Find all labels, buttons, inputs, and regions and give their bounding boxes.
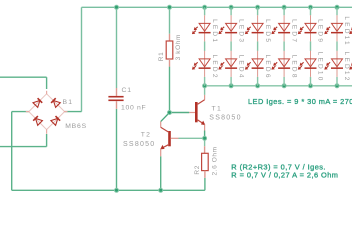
wire AC input bottom horizontal (0, 146, 47, 148)
svg-text:B1: B1 (63, 99, 74, 106)
wire lower LED rail (205, 85, 352, 87)
LED3 (218, 15, 244, 44)
LED10 (298, 51, 324, 83)
label 2.6 Ohm value (211, 146, 218, 175)
svg-text:R1: R1 (158, 52, 165, 62)
wire LED column 3 segments (257, 7, 259, 86)
svg-text:LED Iges. = 9 * 30 mA = 270 mA: LED Iges. = 9 * 30 mA = 270 mA (248, 97, 352, 106)
resistor R1 pin bottom (169, 59, 171, 67)
wire node to T1 base (170, 112, 190, 114)
resistor R1 pin top (169, 34, 171, 41)
svg-text:T1: T1 (212, 105, 223, 112)
wire T1 emitter to node (204, 131, 206, 139)
junction lower LED rail column 3 (256, 84, 260, 88)
svg-text:LED4: LED4 (237, 55, 244, 80)
svg-text:LED5: LED5 (264, 19, 271, 44)
wire top positive rail (82, 6, 352, 8)
wire LED column 2 segments (230, 7, 232, 86)
note R formula line 2 (231, 171, 338, 180)
svg-text:LED6: LED6 (264, 55, 271, 80)
wire node to R2 (204, 138, 206, 146)
svg-text:T2: T2 (141, 132, 151, 139)
wire LED column 6 segments (336, 7, 338, 86)
wire LED column 1 segments (204, 7, 206, 86)
capacitor C1 pin top (116, 88, 118, 96)
wire bottom ground rail (12, 189, 205, 191)
node A under R1 (T1 base / T2 collector) (168, 111, 172, 115)
svg-text:MB6S: MB6S (65, 123, 87, 130)
junction ground rail at T2 emitter (159, 188, 163, 192)
junction lower LED rail column 1 (203, 84, 207, 88)
wire AC input bottom vertical from bridge (46, 134, 48, 147)
junction lower LED rail column 6 (335, 84, 339, 88)
bridge diode top-left (33, 98, 42, 107)
note LED total current (248, 97, 352, 106)
resistor R1 body (166, 41, 173, 59)
junction top rail at LED column 3 (256, 5, 260, 9)
wire T1 collector to LED rail (204, 86, 206, 95)
LED13 partial arrows at image edge (349, 27, 352, 70)
wire left ground vertical (11, 112, 13, 191)
LED9 (298, 15, 324, 44)
wire T2 emitter to ground rail (160, 156, 162, 190)
wire R1 bottom segment (169, 67, 171, 113)
transistor T2 (160, 122, 178, 157)
wire AC input top vertical to bridge (46, 77, 48, 89)
junction top rail at LED column 1 (203, 5, 207, 9)
junction top rail at LED column 6 (335, 5, 339, 9)
wire LED column 5 segments (310, 7, 312, 86)
label MB6S value (65, 123, 87, 130)
label C1 (122, 87, 132, 94)
LED5 (245, 15, 271, 44)
junction lower LED rail column 2 (229, 84, 233, 88)
svg-text:LED2: LED2 (211, 55, 218, 80)
bridge pin stubs (26, 91, 68, 134)
svg-text:SS8050: SS8050 (123, 141, 155, 148)
label T2 SS8050 value (123, 141, 155, 148)
label 3 kOhm value (175, 34, 182, 60)
LED1 (192, 15, 218, 44)
bridge rectifier B1 body outline (29, 94, 65, 130)
svg-text:R = 0,7 V / 0,27 A = 2,6 Ohm: R = 0,7 V / 0,27 A = 2,6 Ohm (231, 171, 338, 180)
wire bridge + corner to vertical (65, 111, 82, 113)
LED12 (324, 51, 350, 83)
LED4 (218, 51, 244, 80)
LED2 (192, 51, 218, 80)
resistor R2 pin top (204, 146, 206, 153)
LED8 (271, 51, 297, 80)
svg-text:LED1: LED1 (211, 19, 218, 44)
svg-text:R2: R2 (194, 165, 201, 175)
wire R1 top segment (169, 7, 171, 34)
wire R2 to ground rail (204, 178, 206, 191)
junction top rail at C1 (115, 5, 119, 9)
svg-text:LED9: LED9 (317, 19, 324, 44)
junction top rail at R1 (168, 5, 172, 9)
svg-text:LED10: LED10 (317, 52, 324, 83)
bridge diode top-right (51, 98, 60, 107)
svg-text:LED7: LED7 (290, 19, 297, 44)
wire T2 base to node (179, 137, 205, 139)
bridge diode bottom-right (51, 116, 60, 125)
svg-text:100 nF: 100 nF (121, 105, 146, 112)
LED7 (271, 15, 297, 44)
LED6 (245, 51, 271, 80)
svg-text:LED8: LED8 (290, 55, 297, 80)
wire AC input top horizontal (0, 76, 47, 78)
capacitor C1 pin bottom (116, 101, 118, 109)
svg-text:LED3: LED3 (237, 19, 244, 44)
svg-text:LED11: LED11 (343, 16, 350, 46)
note R formula line 1 (231, 163, 326, 172)
transistor T1 (189, 95, 205, 131)
junction top rail at LED column 4 (282, 5, 286, 9)
label R1 (158, 52, 165, 62)
wire bridge left - corner horizontal (12, 111, 29, 113)
junction lower LED rail column 4 (282, 84, 286, 88)
resistor R2 pin bottom (204, 171, 206, 178)
node B (T1 emitter / T2 base / R2) (203, 136, 207, 140)
LED11 (324, 15, 350, 47)
junction lower LED rail column 5 (309, 84, 313, 88)
label T1 (212, 105, 223, 112)
capacitor C1 plates (108, 96, 123, 101)
junction top rail at LED column 2 (229, 5, 233, 9)
label B1 (63, 99, 74, 106)
junction ground rail at C1 (115, 188, 119, 192)
wire C1 top segment (116, 7, 118, 88)
label T1 SS8050 value (209, 115, 241, 122)
label T2 (141, 132, 151, 139)
wire C1 bottom segment (116, 109, 118, 190)
svg-text:3 kOhm: 3 kOhm (175, 34, 182, 60)
bridge diode bottom-left (33, 116, 42, 125)
svg-text:SS8050: SS8050 (209, 115, 241, 122)
junction top rail at LED column 5 (309, 5, 313, 9)
wire diagonal to T2 collector (161, 113, 170, 122)
svg-text:LED12: LED12 (343, 52, 350, 83)
resistor R2 body (202, 153, 209, 170)
wire left vertical from top rail to bridge + corner (81, 7, 83, 111)
label R2 (194, 165, 201, 175)
svg-text:2.6 Ohm: 2.6 Ohm (211, 146, 218, 175)
wire LED column 4 segments (283, 7, 285, 86)
label 100 nF value (121, 105, 146, 112)
svg-text:C1: C1 (122, 87, 132, 94)
